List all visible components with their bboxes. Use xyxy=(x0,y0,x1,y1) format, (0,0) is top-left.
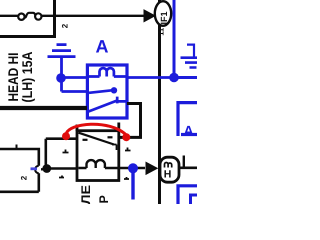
stub pin xyxy=(183,156,185,168)
wire ground to node xyxy=(62,58,89,92)
wire main feed (left black) xyxy=(0,106,87,110)
wire fuse feed xyxy=(0,15,19,17)
red highlight arc xyxy=(66,124,126,135)
dimmer switch arm xyxy=(79,133,115,145)
connector IH label glyphs xyxy=(165,162,172,167)
fuse HEAD HI (LH) 15A xyxy=(25,13,36,18)
svg-text:2: 2 xyxy=(19,175,28,180)
svg-text:(LH) 15A: (LH) 15A xyxy=(19,52,35,103)
blue vertical wire (top right) xyxy=(173,0,176,78)
blue wire colour dash xyxy=(31,167,38,170)
pin mark inside right wall xyxy=(112,145,117,151)
dimmer relay box xyxy=(77,131,119,181)
blue box 2 inner corner xyxy=(191,195,198,204)
ground (right) xyxy=(187,45,194,57)
blue junction dot xyxy=(128,163,138,173)
svg-text:IF1: IF1 xyxy=(159,11,169,24)
stub above box xyxy=(16,145,18,150)
ground (left, blue) xyxy=(48,45,76,57)
pin mark outside right wall xyxy=(125,148,131,151)
pin mark near dimmer top-left xyxy=(63,150,69,153)
main vertical line xyxy=(158,0,161,204)
relay A box xyxy=(87,65,127,118)
arrow into connector IH xyxy=(146,162,157,174)
svg-text:H: H xyxy=(164,168,172,180)
terminal notch xyxy=(35,166,39,173)
dimmer coil xyxy=(79,160,120,168)
relay A switch xyxy=(89,97,127,112)
wire connector to right xyxy=(178,167,197,170)
relay A armature pivot dot xyxy=(111,87,117,93)
svg-text:A: A xyxy=(184,123,194,139)
relay A armature line xyxy=(89,90,112,93)
wire node to coil xyxy=(61,76,88,79)
junction block box (top-left, cut off) xyxy=(0,0,56,37)
wire dimmer coil out xyxy=(119,167,145,170)
blue wire down xyxy=(131,168,134,199)
wire fuse to arrow xyxy=(42,15,146,17)
red dot left xyxy=(62,132,70,140)
svg-text:2: 2 xyxy=(61,23,70,28)
wire relay A out right xyxy=(118,104,141,138)
relay A coil xyxy=(89,68,126,76)
node dot left xyxy=(56,73,66,83)
svg-text:Р: Р xyxy=(97,195,111,203)
pin mark under wire (left) xyxy=(59,176,64,178)
node junction dot right xyxy=(169,73,179,83)
contact tick left xyxy=(83,139,88,141)
arrow into connector IF xyxy=(144,10,155,22)
svg-text:11: 11 xyxy=(157,28,166,36)
connector IH xyxy=(160,157,179,182)
node dot bottom-left xyxy=(42,164,51,173)
left connector box (cut off) xyxy=(0,149,39,192)
svg-text:ЛЕ: ЛЕ xyxy=(79,185,93,204)
bottom wire xyxy=(41,167,78,170)
contact tick right xyxy=(108,136,113,138)
blue box (right, cut off) xyxy=(178,103,197,136)
red dot right xyxy=(122,133,130,141)
pin wire top-left xyxy=(46,139,77,169)
blue box (right) bottom edge xyxy=(181,133,197,136)
dimmer relay pin stubs xyxy=(77,123,119,132)
wire relay A coil to node xyxy=(126,76,174,79)
wire to right edge xyxy=(174,76,197,79)
svg-text:A: A xyxy=(96,37,109,57)
blue box 2 (bottom right, cut off) xyxy=(178,186,197,204)
connector IF1 (top oval) xyxy=(155,1,171,26)
pin mark under wire (right) xyxy=(124,177,129,179)
